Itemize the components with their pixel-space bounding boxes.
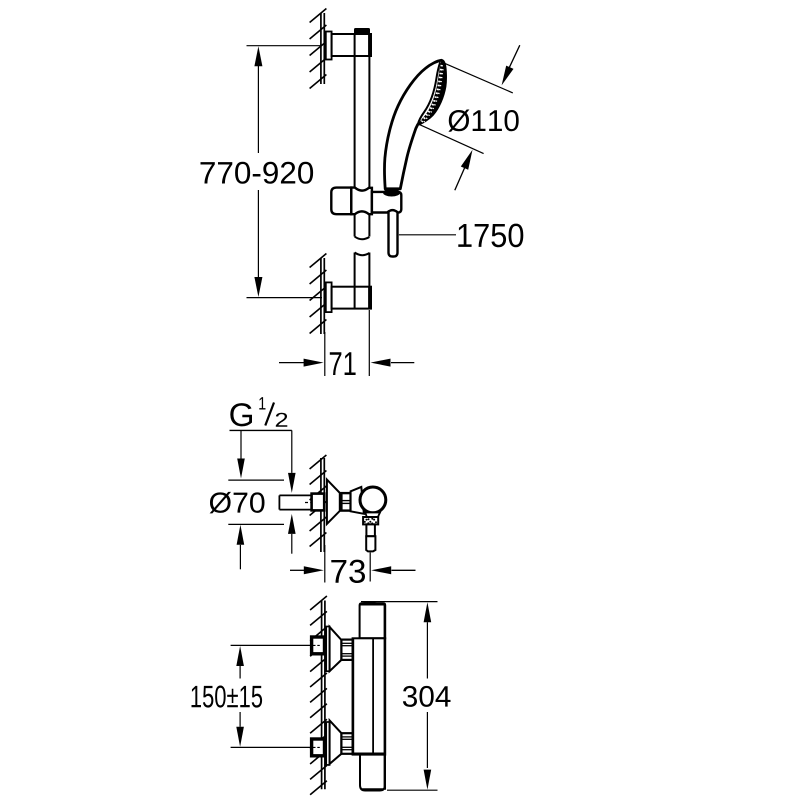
lower inlet nut (341, 733, 352, 754)
spray face inner edge (418, 62, 440, 124)
lower inlet plate (326, 722, 329, 765)
wall middle section (321, 458, 324, 552)
outlet spout (366, 524, 375, 536)
lower inlet stub (312, 739, 325, 756)
thermostat middle body (353, 638, 386, 754)
thermostat bottom cap (360, 755, 385, 791)
lower bracket arm (332, 287, 371, 309)
rail end cap black (354, 28, 370, 34)
holder middle block (351, 188, 372, 215)
body right edge (384, 604, 386, 790)
rail upper segment (355, 34, 370, 239)
top bracket wall plate (326, 32, 332, 60)
hand shower body (384, 60, 445, 189)
supply pipe stub (279, 495, 323, 509)
dimension 150 plus minus 15 (192, 645, 312, 747)
upper inlet escutcheon (330, 627, 342, 671)
valve body circle (360, 487, 386, 513)
body highlight line (372, 638, 374, 754)
wall top section lower segment (321, 258, 324, 334)
rail lower segment (355, 253, 370, 309)
collar nut (341, 493, 350, 511)
hatching middle wall (310, 455, 327, 547)
dimension 304 (361, 602, 451, 791)
knurled nut (363, 517, 378, 524)
label G 1/2 (230, 397, 296, 493)
hatching lower wall (310, 254, 327, 334)
dimension 73 (290, 545, 416, 583)
holder left cylinder (331, 188, 351, 215)
lower bracket wall plate (326, 282, 332, 312)
dimension 770-920 (201, 46, 322, 298)
lower inlet escutcheon (330, 720, 342, 764)
upper inlet nut (341, 640, 352, 660)
pipe nut (312, 494, 325, 511)
holder right cup (372, 192, 401, 213)
wall bottom section (322, 601, 325, 790)
escutcheon flange (327, 480, 340, 524)
hatching bottom wall (310, 596, 327, 795)
thermostat top cap (360, 603, 386, 638)
spray face stipple band (418, 60, 446, 124)
hose nut black ellipse (383, 189, 400, 197)
shower hose (389, 205, 398, 257)
hatching upper wall (310, 9, 327, 89)
wall top section upper segment (321, 13, 324, 84)
dimension diameter 110 (418, 45, 520, 190)
outlet connector (365, 513, 380, 518)
upper inlet stub (312, 637, 325, 654)
top bracket arm (332, 34, 371, 56)
valve housing wedge (351, 487, 364, 514)
dimension diameter 70 (210, 480, 296, 569)
label 1750 hose (399, 224, 523, 248)
upper inlet plate (326, 627, 329, 672)
dimension 71 (279, 310, 414, 376)
